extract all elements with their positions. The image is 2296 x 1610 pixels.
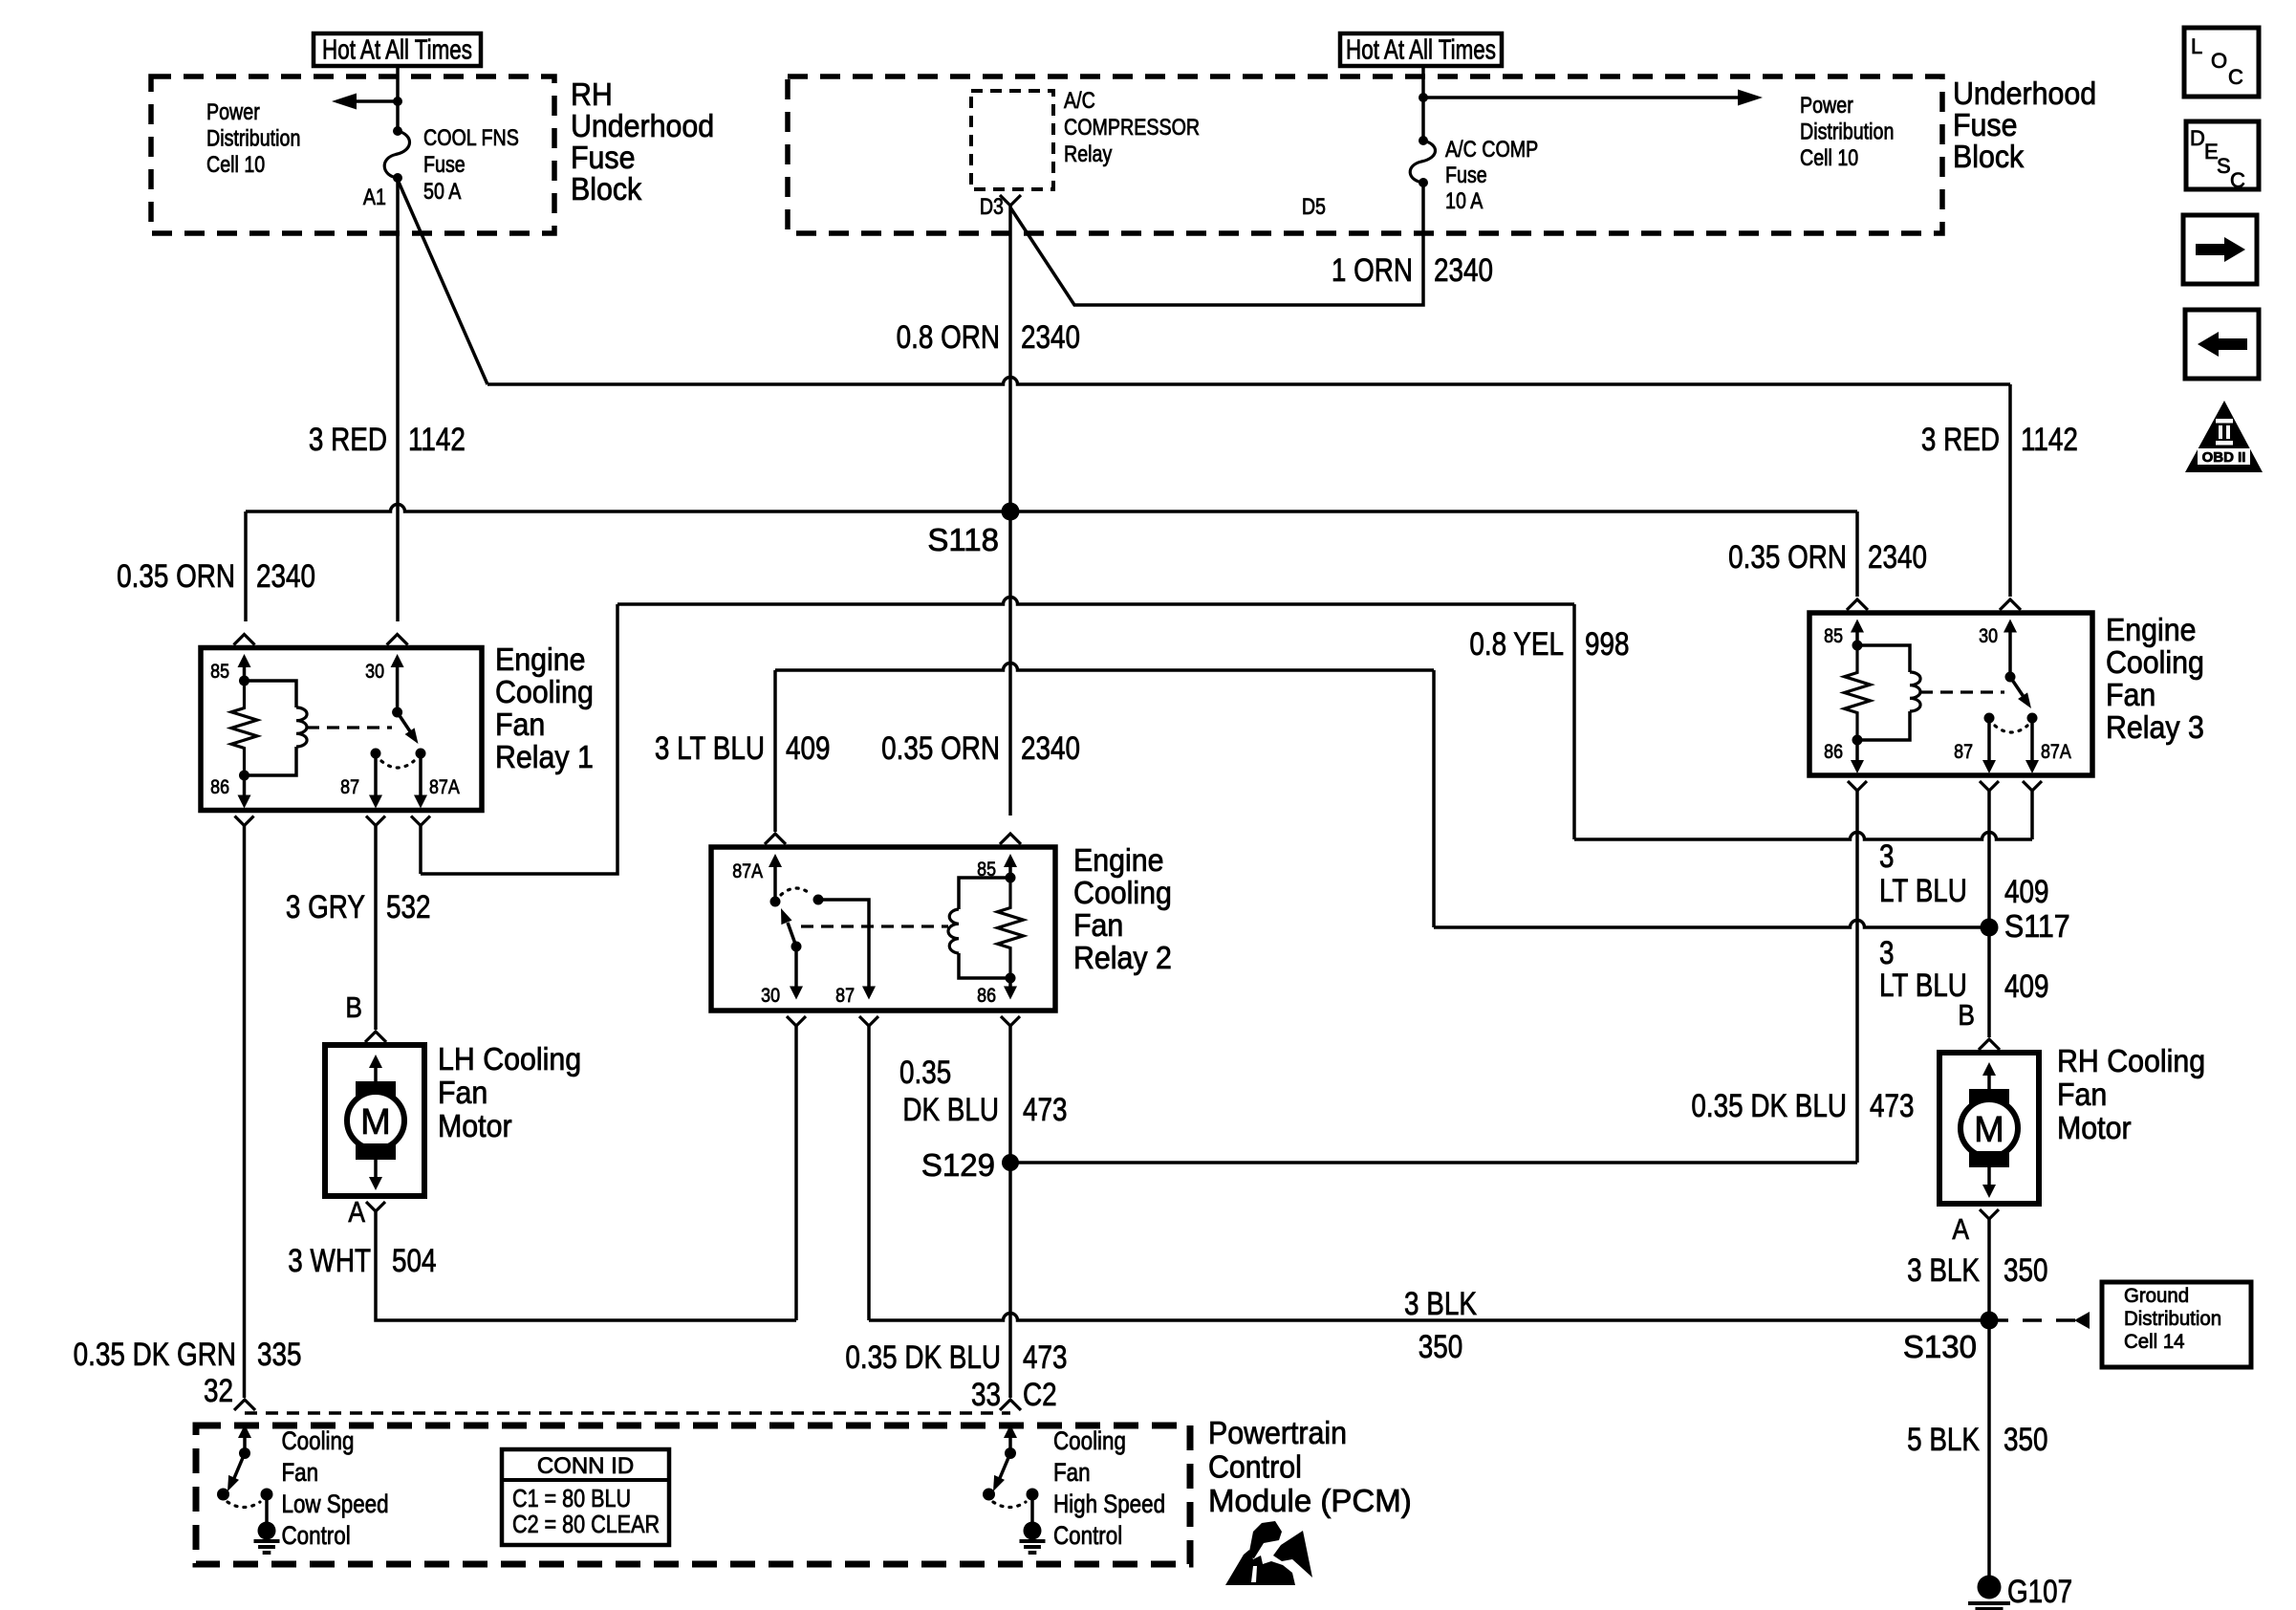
relay2 contact to pin 87 xyxy=(813,895,877,1008)
relay2 coil xyxy=(948,878,1010,978)
svg-text:10 A: 10 A xyxy=(1445,187,1484,213)
power label box: Hot At All Times (left) xyxy=(314,33,481,66)
label: 3 BLK 350 (right) xyxy=(1907,1251,2047,1288)
svg-text:DK BLU: DK BLU xyxy=(902,1091,999,1127)
label: 3 BLK 350 (mid) xyxy=(1404,1285,1477,1364)
relay2 dotted throw arc xyxy=(781,888,812,895)
wire: relay3-87 down to S117 and RH motor B (3 LT BLU 409) xyxy=(1987,791,1991,1037)
label: pin A (RH motor) xyxy=(1952,1213,1969,1246)
connector V below LH motor pin A xyxy=(366,1202,385,1211)
svg-text:32: 32 xyxy=(204,1372,233,1408)
relay2 moving contact 87A xyxy=(770,897,781,907)
svg-text:409: 409 xyxy=(2004,968,2049,1004)
ESD warning symbol xyxy=(1225,1521,1312,1585)
connector V above RH motor xyxy=(1979,1039,2000,1050)
svg-text:33: 33 xyxy=(971,1376,1001,1412)
label: Engine Cooling Fan Relay 3 xyxy=(2106,612,2204,745)
svg-text:A/C: A/C xyxy=(1064,87,1095,113)
svg-text:3 LT BLU: 3 LT BLU xyxy=(655,729,765,766)
power label box: Hot At All Times (right) xyxy=(1340,33,1502,66)
relay1 switch arm 30-87A xyxy=(392,707,418,745)
svg-text:Relay 3: Relay 3 xyxy=(2106,709,2204,745)
relay2 pin 86 arrow xyxy=(977,978,1017,1007)
connector V above relay2 pin 85 xyxy=(1000,834,1021,844)
svg-text:86: 86 xyxy=(1824,741,1843,764)
svg-text:Module (PCM): Module (PCM) xyxy=(1208,1483,1412,1518)
svg-text:Fan: Fan xyxy=(2057,1077,2107,1112)
label: Power Distribution Cell 10 (right) xyxy=(1800,92,1894,170)
svg-text:2340: 2340 xyxy=(256,557,315,594)
svg-text:350: 350 xyxy=(2004,1251,2048,1288)
pin A1 label xyxy=(363,184,386,209)
arrow to Power Distribution Cell 10 (right) xyxy=(1419,90,1763,106)
relay1 pin 86 arrow xyxy=(210,775,250,809)
junction S130 xyxy=(1903,1312,1999,1365)
wire: Hot At All Times to RH underhood fuse block xyxy=(396,66,400,99)
svg-text:C2 = 80 CLEAR: C2 = 80 CLEAR xyxy=(512,1511,660,1538)
connector V below relay3 pin 86 xyxy=(1848,781,1867,791)
svg-text:87A: 87A xyxy=(2041,741,2071,764)
fuse F2: A/C COMP Fuse 10 A xyxy=(1410,98,1435,187)
label: Engine Cooling Fan Relay 1 xyxy=(495,642,594,774)
svg-text:Fuse: Fuse xyxy=(1953,107,2017,142)
svg-text:473: 473 xyxy=(1023,1091,1068,1127)
svg-text:Low Speed: Low Speed xyxy=(282,1490,389,1518)
icon: DESC reference box xyxy=(2186,121,2259,192)
junction S129 xyxy=(921,1147,1019,1183)
relay3 resistor xyxy=(1845,641,1871,746)
svg-text:C: C xyxy=(2230,168,2245,192)
svg-text:M: M xyxy=(360,1102,391,1142)
label: pin A (LH motor) xyxy=(348,1196,365,1229)
label: 3 RED 1142 (right) xyxy=(1921,421,2078,457)
PCM high speed control switch xyxy=(983,1425,1046,1553)
svg-text:473: 473 xyxy=(1870,1087,1915,1123)
svg-text:Control: Control xyxy=(1208,1448,1302,1484)
svg-text:B: B xyxy=(345,991,362,1024)
relay2 resistor xyxy=(998,873,1024,984)
svg-text:1142: 1142 xyxy=(2021,421,2078,457)
svg-text:O: O xyxy=(2211,49,2227,73)
connector V at PCM pin 33 xyxy=(1000,1400,1021,1410)
svg-text:3: 3 xyxy=(1879,838,1895,874)
svg-text:30: 30 xyxy=(365,661,384,684)
connector V above relay2 pin 87A xyxy=(765,834,786,844)
svg-text:Motor: Motor xyxy=(2057,1110,2132,1145)
svg-text:Control: Control xyxy=(282,1522,351,1550)
label: Power Distribution Cell 10 (left) xyxy=(206,98,300,177)
pin D3 label xyxy=(980,193,1004,219)
PCM connector C2 dashed line xyxy=(245,1411,1010,1415)
relay1 contact 87A xyxy=(414,749,460,809)
svg-text:Engine: Engine xyxy=(2106,612,2196,647)
A/C COMPRESSOR Relay (dashed box) xyxy=(971,91,1053,189)
relay3 coil xyxy=(1857,645,1920,740)
label: A/C COMP Fuse 10 A xyxy=(1445,136,1538,213)
label: Powertrain Control Module (PCM) xyxy=(1208,1415,1412,1518)
connector V below relay2 pin 87 xyxy=(859,1016,878,1026)
svg-text:CONN ID: CONN ID xyxy=(537,1453,634,1479)
svg-text:2340: 2340 xyxy=(1021,729,1080,766)
svg-text:LT BLU: LT BLU xyxy=(1879,967,1967,1003)
label: 3 LT BLU 409 (above S117) xyxy=(1879,838,2049,909)
label: RH Cooling Fan Motor xyxy=(2057,1043,2205,1145)
Ground Distribution Cell 14 box xyxy=(2102,1282,2251,1367)
svg-text:2340: 2340 xyxy=(1021,318,1080,355)
junction S117 xyxy=(1981,908,2070,944)
svg-text:5 BLK: 5 BLK xyxy=(1907,1421,1980,1457)
svg-text:Cooling: Cooling xyxy=(495,674,594,709)
svg-text:87A: 87A xyxy=(429,776,460,799)
svg-text:S117: S117 xyxy=(2004,908,2070,944)
relay2 pin 85 arrow xyxy=(977,854,1017,881)
svg-text:RH: RH xyxy=(571,76,613,112)
svg-text:1 ORN: 1 ORN xyxy=(1332,251,1413,288)
relay K1 box: Engine Cooling Fan Relay 1 xyxy=(201,648,482,811)
connector V above relay1 pin 30 xyxy=(387,635,408,645)
label: Cooling Fan Low Speed Control xyxy=(282,1427,389,1550)
relay3 dotted throw arc xyxy=(1995,726,2027,732)
relay1 contact 87 xyxy=(340,749,382,809)
svg-text:Fan: Fan xyxy=(2106,677,2155,712)
svg-text:0.35 ORN: 0.35 ORN xyxy=(1728,538,1847,575)
svg-text:Distribution: Distribution xyxy=(2124,1308,2221,1331)
svg-text:Cell 10: Cell 10 xyxy=(1800,144,1858,170)
relay2 switch arm xyxy=(781,908,802,952)
svg-text:COOL FNS: COOL FNS xyxy=(423,124,519,150)
label: 0.35 DK GRN 335 xyxy=(74,1336,302,1372)
svg-text:Cooling: Cooling xyxy=(2106,644,2204,680)
svg-text:Relay: Relay xyxy=(1064,141,1112,166)
connector V at PCM pin 32 xyxy=(234,1400,255,1410)
connector V below relay3 pin 87 xyxy=(1980,781,1999,791)
label: 0.35 ORN 2340 (relay2 85) xyxy=(881,729,1080,766)
label: 3 WHT 504 xyxy=(288,1242,436,1278)
svg-text:409: 409 xyxy=(2004,873,2049,909)
svg-text:86: 86 xyxy=(210,776,229,799)
svg-text:Engine: Engine xyxy=(1073,842,1163,878)
svg-text:B: B xyxy=(1958,999,1975,1032)
svg-text:COMPRESSOR: COMPRESSOR xyxy=(1064,114,1200,140)
svg-text:87: 87 xyxy=(835,985,855,1008)
svg-text:2340: 2340 xyxy=(1868,538,1927,575)
svg-text:1142: 1142 xyxy=(408,421,466,457)
svg-text:Fan: Fan xyxy=(282,1459,319,1487)
svg-text:Relay 2: Relay 2 xyxy=(1073,940,1172,975)
label: 0.8 YEL 998 xyxy=(1469,625,1629,662)
svg-text:87: 87 xyxy=(1954,741,1973,764)
wire: S129 to relay3-86 (0.35 DK BLU 473) xyxy=(1010,791,1857,1163)
relay3 pin 30 arrow xyxy=(1979,620,2017,678)
svg-text:85: 85 xyxy=(977,859,996,881)
svg-text:Cell 14: Cell 14 xyxy=(2124,1331,2185,1354)
label: pin B (RH motor) xyxy=(1958,999,1975,1032)
svg-text:Fuse: Fuse xyxy=(1445,162,1487,187)
svg-text:0.35 DK GRN: 0.35 DK GRN xyxy=(74,1336,236,1372)
connector V above relay1 pin 85 xyxy=(234,635,255,645)
label: A/C COMPRESSOR Relay xyxy=(1064,87,1200,166)
svg-text:473: 473 xyxy=(1023,1338,1068,1375)
relay3 contact 87 xyxy=(1954,713,1996,774)
wire: relay2-86 down through S129 to PCM 33 (0.35 DK BLU 473) xyxy=(1008,1026,1012,1398)
label: 0.8 ORN 2340 xyxy=(897,318,1080,355)
svg-text:Distribution: Distribution xyxy=(1800,119,1894,144)
label: pin B (LH motor) xyxy=(345,991,362,1024)
svg-text:Hot At All Times: Hot At All Times xyxy=(322,35,472,65)
junction S118 xyxy=(927,503,1019,558)
svg-text:350: 350 xyxy=(1419,1328,1463,1364)
svg-text:Hot At All Times: Hot At All Times xyxy=(1346,35,1496,65)
wire: fuse D5 down, left, diagonal up to D3 (1 ORN 2340) xyxy=(1010,183,1423,305)
svg-text:LH Cooling: LH Cooling xyxy=(438,1041,581,1077)
CONN ID table xyxy=(502,1449,669,1545)
arrow to Power Distribution Cell 10 (left) xyxy=(332,94,402,110)
svg-text:Motor: Motor xyxy=(438,1108,512,1143)
svg-text:3 WHT: 3 WHT xyxy=(288,1242,371,1278)
svg-text:S: S xyxy=(2217,154,2231,178)
label: 3 LT BLU 409 (relay2 87A) xyxy=(655,729,831,766)
svg-text:86: 86 xyxy=(977,985,996,1008)
fuse F1: COOL FNS Fuse 50 A xyxy=(384,101,409,183)
svg-text:504: 504 xyxy=(392,1242,437,1278)
svg-text:High Speed: High Speed xyxy=(1053,1490,1165,1518)
svg-text:3 BLK: 3 BLK xyxy=(1404,1285,1477,1321)
relay3 pin 86 arrow xyxy=(1824,740,1864,773)
motor M1 box: LH Cooling Fan Motor xyxy=(325,1045,424,1196)
svg-text:Ground: Ground xyxy=(2124,1285,2189,1308)
svg-text:Cooling: Cooling xyxy=(1053,1427,1126,1455)
relay1 coil xyxy=(245,681,308,775)
wire: relay1-86 down to PCM pin 32 (0.35 DK GRN 335) xyxy=(243,825,247,1398)
connector V below RH motor pin A xyxy=(1980,1209,1999,1219)
label: COOL FNS Fuse 50 A xyxy=(423,124,519,204)
svg-text:C1 = 80 BLU: C1 = 80 BLU xyxy=(512,1485,631,1512)
svg-text:Fuse: Fuse xyxy=(423,151,466,177)
label: 0.35 ORN 2340 (left) xyxy=(117,557,315,594)
svg-text:0.35 ORN: 0.35 ORN xyxy=(881,729,1000,766)
label: Engine Cooling Fan Relay 2 xyxy=(1073,842,1172,975)
svg-text:Control: Control xyxy=(1053,1522,1122,1550)
relay3 contact 87A xyxy=(2025,713,2071,774)
PCM box: Powertrain Control Module (dashed) xyxy=(196,1425,1190,1564)
connector V below relay1 pin 86 xyxy=(235,816,254,826)
svg-text:Underhood: Underhood xyxy=(571,108,714,143)
wire: relay1-87A to relay3-87A (0.8 YEL 998) xyxy=(421,598,2032,875)
label: Cooling Fan High Speed Control xyxy=(1053,1427,1165,1550)
svg-text:M: M xyxy=(1974,1110,2004,1150)
svg-text:Fan: Fan xyxy=(438,1075,487,1110)
motor M2 symbol xyxy=(1960,1062,2018,1198)
connector V below relay3 pin 87A xyxy=(2023,781,2042,791)
connector V below relay1 pin 87A xyxy=(411,816,430,826)
svg-text:3 BLK: 3 BLK xyxy=(1907,1251,1980,1288)
svg-text:Cell 10: Cell 10 xyxy=(206,151,265,177)
svg-text:30: 30 xyxy=(1979,625,1998,648)
label: 0.35 DK BLU 473 (relay3-86) xyxy=(1691,1087,1914,1123)
label: 0.35 ORN 2340 (right) xyxy=(1728,538,1927,575)
wire: S118 distribution line to relay1-85 and relay3-85 (0.35 ORN 2340) xyxy=(246,505,1857,622)
svg-text:S130: S130 xyxy=(1903,1329,1977,1364)
svg-text:3 RED: 3 RED xyxy=(1921,421,2000,457)
motor M2 box: RH Cooling Fan Motor xyxy=(1939,1053,2039,1204)
connector V below relay2 pin 86 xyxy=(1001,1016,1020,1026)
relay3 switch arm 30-87A xyxy=(2005,672,2032,709)
svg-text:0.35 ORN: 0.35 ORN xyxy=(117,557,235,594)
relay1 pin 30 arrow xyxy=(365,654,403,712)
dashed arrow to Ground Distribution Cell 14 xyxy=(1989,1312,2090,1329)
svg-text:S129: S129 xyxy=(921,1147,995,1183)
relay2 pin 30 xyxy=(761,946,803,1007)
svg-text:2340: 2340 xyxy=(1434,251,1493,288)
svg-text:D5: D5 xyxy=(1302,193,1326,219)
wire: A1 straight down to relay 1 pin 30 (3 RED 1142) xyxy=(396,178,400,621)
svg-text:0.8 ORN: 0.8 ORN xyxy=(897,318,1000,355)
label: 0.35 DK BLU 473 (below relay2) xyxy=(899,1054,1068,1127)
relay2 dashed coil-switch link xyxy=(801,925,948,927)
connector V above relay3 pin 30 xyxy=(2000,599,2021,610)
wire: LH motor A to relay2-30 (3 WHT 504) xyxy=(376,1026,796,1320)
svg-text:85: 85 xyxy=(1824,625,1843,648)
svg-text:C2: C2 xyxy=(1023,1376,1057,1412)
icon: forward arrow box xyxy=(2183,215,2257,284)
relay3 pin 85 arrow xyxy=(1824,620,1864,648)
relay1 dashed coil-switch link xyxy=(307,726,392,729)
svg-text:LT BLU: LT BLU xyxy=(1879,872,1967,908)
svg-text:C: C xyxy=(2228,65,2243,89)
label: 3 LT BLU 409 (below S117) xyxy=(1879,934,2049,1004)
RH Underhood Fuse Block (dashed box) xyxy=(151,76,554,233)
label: 3 RED 1142 (left) xyxy=(309,421,466,457)
pin D5 label xyxy=(1302,193,1326,219)
wire: relay2-87A up and over to S117 (3 LT BLU 409) xyxy=(775,664,1989,927)
icon: OBD II triangle xyxy=(2185,401,2263,472)
svg-text:998: 998 xyxy=(1585,625,1630,662)
svg-text:0.8 YEL: 0.8 YEL xyxy=(1469,625,1564,662)
svg-text:Cooling: Cooling xyxy=(282,1427,355,1455)
connector V above relay3 pin 85 xyxy=(1847,599,1868,610)
wire: 0.8 ORN 2340 from D3 down to S118 and relay 2 pin 85 xyxy=(1008,206,1012,816)
svg-text:Powertrain: Powertrain xyxy=(1208,1415,1347,1450)
svg-text:3 RED: 3 RED xyxy=(309,421,387,457)
svg-text:Fuse: Fuse xyxy=(571,140,635,175)
relay K3 box: Engine Cooling Fan Relay 3 xyxy=(1809,613,2092,775)
svg-text:0.35: 0.35 xyxy=(899,1054,951,1090)
label: pin 33 C2 xyxy=(971,1376,1057,1412)
connector V below relay2 pin 30 xyxy=(787,1016,806,1026)
svg-text:0.35 DK BLU: 0.35 DK BLU xyxy=(845,1338,1001,1375)
svg-text:Fan: Fan xyxy=(1073,907,1123,943)
svg-text:A1: A1 xyxy=(363,184,386,209)
svg-text:3: 3 xyxy=(1879,934,1895,970)
wire: A1 diagonal to 3 RED 1142 feed to relay 3 pin 30 xyxy=(398,180,2010,597)
svg-text:30: 30 xyxy=(761,985,780,1008)
connector V above LH motor xyxy=(365,1032,386,1042)
label: LH Cooling Fan Motor xyxy=(438,1041,581,1143)
connector V at D3 xyxy=(1000,195,1021,206)
wire: S130 down to G107 (5 BLK 350) xyxy=(1987,1320,1991,1576)
relay2 pin 87A arrow xyxy=(732,854,782,902)
label: RH Underhood Fuse Block xyxy=(571,76,714,207)
svg-text:G107: G107 xyxy=(2007,1573,2072,1609)
svg-text:350: 350 xyxy=(2004,1421,2048,1457)
wire: RH motor A down to S130 (3 BLK 350) xyxy=(1987,1219,1991,1320)
svg-text:RH Cooling: RH Cooling xyxy=(2057,1043,2205,1078)
svg-text:50 A: 50 A xyxy=(423,178,462,204)
relay K2 box: Engine Cooling Fan Relay 2 xyxy=(711,847,1055,1011)
svg-text:S118: S118 xyxy=(927,522,999,557)
svg-text:Power: Power xyxy=(1800,92,1853,118)
label: Underhood Fuse Block (right) xyxy=(1953,76,2096,174)
svg-text:Block: Block xyxy=(1953,139,2024,174)
icon: back arrow box xyxy=(2185,310,2259,379)
PCM low speed control switch xyxy=(217,1425,280,1553)
svg-text:Block: Block xyxy=(571,171,641,207)
Underhood Fuse Block (dashed box, right) xyxy=(788,76,1942,233)
svg-text:0.35 DK BLU: 0.35 DK BLU xyxy=(1691,1087,1847,1123)
svg-text:335: 335 xyxy=(257,1336,302,1372)
svg-text:L: L xyxy=(2191,34,2202,58)
svg-text:3 GRY: 3 GRY xyxy=(286,888,365,925)
svg-text:Cooling: Cooling xyxy=(1073,875,1172,910)
svg-text:85: 85 xyxy=(210,661,229,684)
relay3 dashed coil-switch link xyxy=(1920,690,2004,693)
svg-text:532: 532 xyxy=(386,888,431,925)
svg-text:Power: Power xyxy=(206,98,260,124)
svg-text:A: A xyxy=(348,1196,365,1229)
motor M1 symbol xyxy=(347,1055,404,1190)
svg-text:87A: 87A xyxy=(732,860,763,883)
relay1 resistor xyxy=(231,676,257,781)
wire: relay1-87 down to LH motor B (3 GRY 532) xyxy=(374,825,378,1030)
label: 0.35 DK BLU 473 (above PCM 33) xyxy=(845,1338,1067,1375)
relay1 pin 85 arrow xyxy=(210,654,250,683)
svg-text:D: D xyxy=(2190,126,2205,150)
label: 1 ORN 2340 xyxy=(1332,251,1493,288)
ground G107 xyxy=(1968,1573,2072,1610)
svg-text:Underhood: Underhood xyxy=(1953,76,2096,111)
wire: Hot At All Times to underhood fuse block (right) xyxy=(1421,66,1425,99)
icon: LOC reference box xyxy=(2184,28,2259,97)
svg-text:Fan: Fan xyxy=(1053,1459,1091,1487)
label: 3 GRY 532 xyxy=(286,888,431,925)
svg-text:A/C COMP: A/C COMP xyxy=(1445,136,1538,162)
svg-text:Engine: Engine xyxy=(495,642,585,677)
connector V below relay1 pin 87 xyxy=(366,816,385,826)
svg-text:Distribution: Distribution xyxy=(206,125,300,151)
svg-text:87: 87 xyxy=(340,776,359,799)
label: 5 BLK 350 xyxy=(1907,1421,2047,1457)
svg-text:Relay 1: Relay 1 xyxy=(495,739,594,774)
svg-text:OBD II: OBD II xyxy=(2202,449,2246,466)
relay1 dotted throw arc xyxy=(381,761,414,768)
svg-text:409: 409 xyxy=(786,729,831,766)
label: pin 32 xyxy=(204,1372,233,1408)
wire: relay2-87 down to ground run to S130 (3 BLK 350) xyxy=(869,1026,1989,1320)
svg-text:Fan: Fan xyxy=(495,707,545,742)
svg-text:A: A xyxy=(1952,1213,1969,1246)
